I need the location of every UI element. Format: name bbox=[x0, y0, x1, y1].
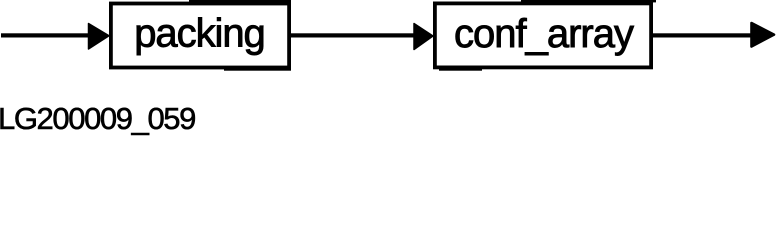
svg-text:conf_array: conf_array bbox=[454, 12, 634, 56]
scan artifact: ragged bottom edge of conf_array box bbox=[439, 69, 482, 71]
scan artifact: ragged bottom edge of packing box bbox=[224, 69, 291, 71]
svg-text:packing: packing bbox=[134, 12, 265, 56]
arrowhead into conf_array bbox=[414, 24, 433, 50]
scan artifact: ragged top edge of packing box bbox=[189, 0, 291, 2]
box conf_array bbox=[435, 3, 651, 67]
arrowhead output bbox=[752, 23, 775, 47]
wire input bbox=[1, 33, 90, 37]
wire output bbox=[651, 33, 752, 37]
arrowhead into packing bbox=[89, 24, 110, 50]
box packing bbox=[111, 4, 289, 68]
svg-text:LG200009_059: LG200009_059 bbox=[0, 101, 195, 136]
wire packing to conf_array bbox=[289, 33, 415, 37]
scan artifact: ragged top edge of conf_array box bbox=[521, 0, 656, 2]
